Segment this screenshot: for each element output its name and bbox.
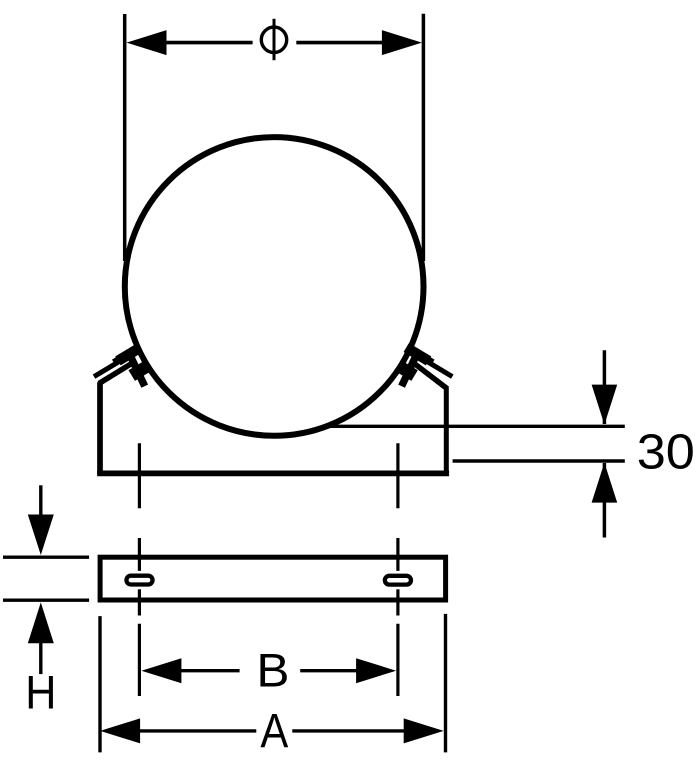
right bolt shaft <box>402 350 419 386</box>
right clamp strap flange <box>409 351 452 377</box>
dimension H top line <box>3 556 89 559</box>
phi right arrowhead <box>382 30 422 55</box>
dimension 30: up arrowhead <box>592 463 618 503</box>
phi symbol <box>261 27 286 52</box>
bracket right top diagonal edge <box>412 362 447 389</box>
phi dimension line left segment <box>160 41 253 45</box>
phi dimension left extension line <box>123 14 127 261</box>
dimension 30: vertical dimension line <box>603 350 607 424</box>
dimension H up arrow tail <box>39 643 42 674</box>
svg-text:A: A <box>260 705 288 758</box>
bracket left top diagonal edge <box>99 362 134 384</box>
right washer step <box>419 353 434 366</box>
left bolt nut block <box>129 362 150 381</box>
dimension H down arrowhead <box>28 515 54 556</box>
base plate left slot <box>126 576 152 585</box>
bracket right vertical edge <box>444 388 449 474</box>
dimension A left extension line <box>98 616 101 752</box>
right bolt head block <box>404 343 432 365</box>
pipe circle <box>125 137 424 436</box>
bracket left vertical edge <box>97 382 103 474</box>
center line left (dashed) <box>138 443 141 696</box>
left washer step <box>112 353 127 366</box>
dimension H down arrow tail <box>39 485 42 518</box>
dimension 30: top reference line <box>326 425 625 428</box>
dimension A right extension line <box>444 614 447 753</box>
dimension B right arrowhead <box>356 658 396 683</box>
phi dimension line right segment <box>296 41 388 45</box>
phi dimension right extension line <box>422 14 426 261</box>
dimension A left arrowhead <box>100 718 140 743</box>
center line right (dashed) <box>396 443 399 696</box>
dimension A line left segment <box>135 729 256 732</box>
phi left arrowhead <box>127 30 167 55</box>
dimension A line right segment <box>292 729 409 732</box>
svg-text:H: H <box>25 667 56 720</box>
base plate outline <box>100 557 446 600</box>
left clamp strap flange <box>94 351 137 377</box>
dimension H bottom line <box>3 599 89 602</box>
dimension B line right segment <box>300 669 362 672</box>
base plate right slot <box>385 576 411 585</box>
bracket bottom edge <box>97 471 449 477</box>
dimension 30: down arrowhead <box>592 385 618 425</box>
left bolt head block <box>115 343 143 365</box>
dimension H up arrowhead <box>28 602 54 643</box>
dimension A right arrowhead <box>404 718 444 743</box>
svg-text:30: 30 <box>637 425 695 480</box>
left bolt shaft <box>128 350 145 386</box>
dimension B left arrowhead <box>141 658 181 683</box>
dimension B line left segment <box>175 669 240 672</box>
svg-text:B: B <box>256 645 289 698</box>
dimension 30: bottom reference line <box>453 459 625 462</box>
right bolt nut block <box>397 362 418 381</box>
